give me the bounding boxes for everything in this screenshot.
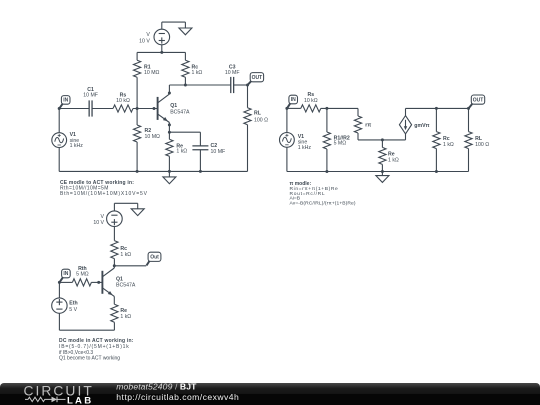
svg-text:10 MF: 10 MF xyxy=(211,149,226,155)
svg-text:1 kΩ: 1 kΩ xyxy=(192,70,203,76)
svg-text:http://circuitlab.com/cexwv4h: http://circuitlab.com/cexwv4h xyxy=(116,392,239,402)
svg-text:10 kΩ: 10 kΩ xyxy=(304,98,318,104)
svg-text:IN: IN xyxy=(63,98,68,104)
svg-text:10 MF: 10 MF xyxy=(83,92,98,98)
svg-text:V: V xyxy=(101,214,105,220)
svg-text:Eth: Eth xyxy=(69,301,77,307)
svg-text:RL: RL xyxy=(254,111,262,117)
svg-text:5 V: 5 V xyxy=(69,307,77,313)
svg-text:Q1 become to ACT working: Q1 become to ACT working xyxy=(59,356,120,362)
svg-text:5 MΩ: 5 MΩ xyxy=(334,141,347,147)
svg-text:10 MΩ: 10 MΩ xyxy=(144,70,160,76)
svg-text:1 kHz: 1 kHz xyxy=(70,143,84,149)
svg-text:100 Ω: 100 Ω xyxy=(254,118,268,124)
svg-text:OUT: OUT xyxy=(252,75,263,81)
svg-text:Bth=10M/(10M+10M)X10V=5V: Bth=10M/(10M+10M)X10V=5V xyxy=(60,191,148,197)
svg-text:10 MF: 10 MF xyxy=(225,70,240,76)
svg-text:C2: C2 xyxy=(211,143,218,149)
svg-text:gmVπ: gmVπ xyxy=(414,123,429,129)
svg-text:Out: Out xyxy=(150,255,159,261)
svg-text:10 V: 10 V xyxy=(93,220,104,226)
svg-text:10 V: 10 V xyxy=(139,38,150,44)
svg-text:BC547A: BC547A xyxy=(116,282,136,288)
svg-text:OUT: OUT xyxy=(473,97,484,103)
svg-text:1 kHz: 1 kHz xyxy=(298,145,312,151)
svg-text:1 kΩ: 1 kΩ xyxy=(388,157,399,163)
svg-text:10 kΩ: 10 kΩ xyxy=(116,98,130,104)
svg-text:rπ: rπ xyxy=(365,122,371,128)
svg-text:1 kΩ: 1 kΩ xyxy=(443,142,454,148)
svg-text:5 MΩ: 5 MΩ xyxy=(76,272,89,278)
svg-text:1 kΩ: 1 kΩ xyxy=(176,149,187,155)
svg-text:Q1: Q1 xyxy=(170,103,177,109)
svg-text:Av=-B(RC//RL)/(rπ+(1+B)Re): Av=-B(RC//RL)/(rπ+(1+B)Re) xyxy=(290,201,356,207)
svg-text:LAB: LAB xyxy=(67,395,93,405)
svg-text:100 Ω: 100 Ω xyxy=(475,142,489,148)
svg-text:1 kΩ: 1 kΩ xyxy=(120,314,131,320)
svg-text:Re: Re xyxy=(120,308,127,314)
svg-text:1 kΩ: 1 kΩ xyxy=(120,252,131,258)
svg-text:mobetat52409 / BJT: mobetat52409 / BJT xyxy=(116,382,197,392)
svg-text:V: V xyxy=(146,32,150,38)
svg-text:10 MΩ: 10 MΩ xyxy=(145,134,161,140)
svg-text:BC547A: BC547A xyxy=(170,109,190,115)
svg-text:IN: IN xyxy=(291,97,296,103)
svg-text:IN: IN xyxy=(63,271,68,277)
